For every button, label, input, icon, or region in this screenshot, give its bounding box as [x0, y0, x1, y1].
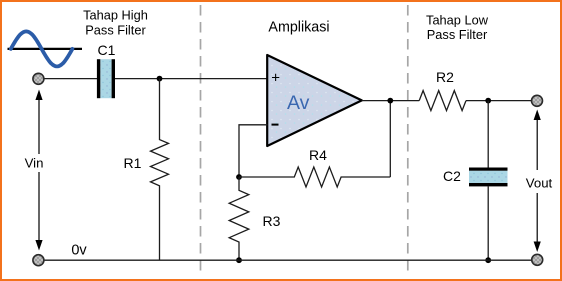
- ground terminal (bottom right): [532, 254, 543, 265]
- svg-text:R3: R3: [263, 213, 281, 229]
- ground terminal (bottom left): [33, 255, 44, 266]
- Vin measurement arrow: [35, 90, 42, 251]
- resistor R3: [229, 177, 249, 260]
- svg-text:Tahap High: Tahap High: [83, 7, 148, 22]
- resistor R2: [419, 91, 466, 111]
- svg-text:R2: R2: [436, 69, 454, 85]
- node junction: R2 / C2: [485, 98, 491, 104]
- svg-text:0v: 0v: [71, 243, 87, 259]
- node junction: R3 at ground rail: [236, 257, 242, 263]
- node junction: C2 at ground rail: [485, 257, 491, 263]
- svg-text:C1: C1: [98, 42, 116, 58]
- svg-text:+: +: [271, 69, 280, 86]
- wire: inverting input feedback (left and down): [239, 125, 268, 177]
- svg-text:Tahap Low: Tahap Low: [426, 12, 489, 27]
- wire: feedback riser to output node: [389, 101, 391, 177]
- svg-text:Pass Filter: Pass Filter: [85, 23, 146, 38]
- section header: Tahap Low Pass Filter: [426, 12, 489, 41]
- ground rail wire (0v): [44, 259, 532, 261]
- svg-text:Amplikasi: Amplikasi: [268, 20, 329, 36]
- output terminal: [532, 95, 543, 106]
- resistor R1: [151, 79, 169, 261]
- node junction: top rail / R1: [157, 76, 163, 82]
- wire: C1 to op-amp non-inverting input: [115, 78, 268, 80]
- svg-text:Pass Filter: Pass Filter: [427, 27, 488, 42]
- node junction: inverting input / R4 / R3: [236, 174, 242, 180]
- section header: Tahap High Pass Filter: [83, 7, 148, 37]
- wire: C2 bottom lead: [487, 186, 489, 260]
- capacitor C1: [97, 59, 115, 98]
- resistor R4: [239, 167, 390, 187]
- dashed separator line (high-pass / amplifier): [200, 5, 202, 272]
- op-amp U1: [267, 55, 362, 146]
- capacitor C2: [469, 168, 508, 187]
- svg-text:Vin: Vin: [25, 156, 44, 171]
- svg-text:Vout: Vout: [526, 176, 553, 191]
- wire: R2 to output terminal: [466, 100, 532, 102]
- wire: input terminal to C1: [45, 78, 98, 80]
- svg-text:C2: C2: [443, 168, 461, 184]
- ac source sine symbol: [8, 31, 83, 66]
- svg-text:Av: Av: [287, 92, 310, 114]
- Vout measurement arrow: [534, 110, 541, 253]
- wire: C2 top lead: [487, 101, 489, 168]
- dashed separator line (amplifier / low-pass): [407, 5, 409, 272]
- input terminal: [33, 73, 44, 84]
- wire: op-amp output to R2: [362, 100, 419, 102]
- node junction: output / feedback: [387, 98, 393, 104]
- svg-text:R4: R4: [309, 147, 327, 163]
- svg-text:R1: R1: [124, 155, 142, 171]
